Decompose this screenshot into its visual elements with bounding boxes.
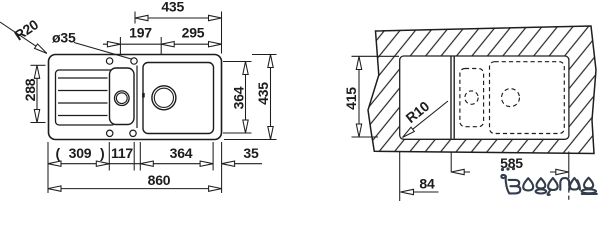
dim 435 right ext bbox=[221, 12, 223, 54]
dim 288 top ext bbox=[31, 64, 46, 66]
ext line through watermark bbox=[568, 174, 570, 201]
arrow 585 right bbox=[556, 169, 569, 174]
arrow 84 bbox=[401, 189, 414, 194]
dim 585 stub left bbox=[451, 171, 470, 173]
watermark letter a tail bbox=[577, 180, 580, 189]
divider line between bowls bbox=[136, 66, 138, 129]
watermark letter p bbox=[560, 178, 569, 190]
dim 84 line bbox=[401, 191, 439, 193]
bottom ext sink left bbox=[47, 142, 49, 193]
dim 435 v bottom ext bbox=[224, 139, 277, 141]
bottom ext 364 left bbox=[139, 142, 141, 171]
dim 435 top line bbox=[135, 17, 222, 19]
arrow 197 left outside bbox=[107, 42, 120, 47]
svg-text:288: 288 bbox=[22, 78, 38, 101]
dim 415 bottom ext bbox=[352, 136, 379, 138]
arrow 288 top bbox=[34, 65, 39, 78]
svg-text:R20: R20 bbox=[11, 16, 41, 44]
arrow R20 leader bbox=[35, 44, 49, 56]
drainer inner rect bbox=[56, 70, 116, 125]
main bowl bbox=[143, 63, 214, 134]
faucet hole top left bbox=[106, 58, 112, 64]
bottom ext 309/117 bbox=[108, 142, 110, 171]
svg-text:117: 117 bbox=[111, 145, 133, 161]
double line a bbox=[450, 57, 452, 139]
watermark letter B stem bbox=[506, 176, 510, 193]
worktop slab with hatching bbox=[368, 26, 596, 154]
watermark letter a drop bbox=[570, 178, 579, 190]
arrow 435v top bbox=[268, 55, 273, 68]
watermark letter B bowls bbox=[509, 180, 521, 194]
drainer rib 1 bbox=[58, 77, 108, 79]
dim 415 line bbox=[358, 57, 360, 138]
cutout opening bbox=[400, 56, 569, 139]
dim 860 line bbox=[48, 188, 222, 190]
bottom ext sink right bbox=[221, 142, 223, 193]
watermark letter d1 drop bbox=[537, 178, 546, 188]
svg-text:364: 364 bbox=[231, 86, 247, 109]
faucet hole top right bbox=[131, 58, 137, 64]
hidden half bowl bbox=[460, 69, 484, 127]
dim 435 v top ext bbox=[252, 54, 277, 56]
arrow 415 top bbox=[356, 57, 361, 70]
watermark letter o2 tail bbox=[548, 189, 551, 195]
main bowl drain inner bbox=[154, 88, 173, 107]
sink outer outline bbox=[49, 55, 222, 140]
svg-text:84: 84 bbox=[419, 176, 435, 192]
svg-text:(: ( bbox=[56, 145, 61, 161]
svg-text:435: 435 bbox=[161, 0, 184, 15]
dim 415 top ext bbox=[352, 55, 400, 57]
overflow tick on main bowl left wall bbox=[142, 93, 145, 98]
arrow 197 right outside bbox=[161, 42, 174, 47]
arrow 364v bottom bbox=[243, 120, 248, 133]
arrow R10 bbox=[401, 127, 415, 139]
arrow 309 right bbox=[96, 161, 109, 166]
dim 435 left ext bbox=[134, 12, 136, 24]
hidden main bowl drain bbox=[502, 89, 520, 107]
arrow 364v top bbox=[243, 62, 248, 75]
dim 364 top ext bbox=[223, 61, 252, 63]
watermark letter o2 drop bbox=[548, 178, 558, 190]
watermark letter d2 boat bbox=[582, 189, 596, 193]
watermark letter d2 drop bbox=[584, 178, 593, 189]
svg-text:364: 364 bbox=[170, 145, 193, 161]
arrow 585 left bbox=[451, 169, 464, 174]
watermark letter d2 baseline bbox=[582, 193, 597, 195]
double line left of bowls bbox=[451, 57, 454, 139]
half bowl drain outer bbox=[115, 91, 130, 106]
dim 435 vertical line bbox=[270, 55, 272, 140]
half bowl bbox=[110, 68, 135, 125]
arrow 288 bottom bbox=[34, 110, 39, 123]
svg-text:295: 295 bbox=[182, 25, 205, 41]
bottom ext 117 right bbox=[133, 142, 135, 171]
dim 197-295 line bbox=[103, 43, 222, 45]
svg-text:197: 197 bbox=[129, 25, 152, 41]
right view dimensions bbox=[352, 56, 569, 201]
arrows left view bbox=[34, 15, 273, 191]
svg-text:): ) bbox=[100, 145, 104, 161]
diameter 35 leader bbox=[74, 43, 132, 60]
dim 585 ext left bbox=[450, 152, 452, 173]
svg-text:35: 35 bbox=[243, 145, 259, 161]
main bowl drain outer bbox=[152, 86, 176, 110]
R20 leader bbox=[0, 22, 47, 53]
faucet hole bottom right bbox=[130, 130, 136, 136]
R10 leader bbox=[403, 101, 449, 137]
faucet hole bottom left bbox=[107, 130, 113, 136]
arrow 435 top right bbox=[209, 15, 222, 20]
svg-text:435: 435 bbox=[255, 82, 271, 105]
half bowl drain inner bbox=[116, 93, 127, 104]
watermark letter o1 drop bbox=[523, 178, 533, 190]
dim 585 stub right bbox=[550, 171, 569, 173]
bottom dim 35 leader bbox=[222, 163, 262, 165]
arrow 435v bottom bbox=[268, 127, 273, 140]
arrow 415 bottom bbox=[356, 124, 361, 137]
arrow 309 left bbox=[48, 161, 61, 166]
arrow 435 top left bbox=[135, 15, 148, 20]
arrow 295 right bbox=[209, 42, 222, 47]
watermark dots bbox=[501, 168, 504, 171]
hidden main bowl bbox=[490, 62, 565, 134]
arrow 35 outside bbox=[222, 161, 235, 166]
ext at 161 bbox=[160, 37, 162, 55]
hidden half bowl drain bbox=[465, 91, 478, 104]
dim 288 line bbox=[36, 65, 38, 122]
texts left view bbox=[11, 0, 271, 188]
double line b bbox=[453, 57, 455, 139]
dim 84 ext bbox=[399, 152, 401, 202]
svg-text:ø35: ø35 bbox=[52, 30, 76, 46]
drainer rib 3 bbox=[58, 102, 108, 104]
watermark letter d1 boat bbox=[536, 189, 547, 193]
dim 364 bottom ext bbox=[223, 132, 252, 134]
ext at 120 bbox=[119, 37, 121, 54]
drainer rib 4 bbox=[58, 115, 108, 117]
drainer rib 2 bbox=[58, 90, 108, 92]
bottom dim row1 line left bbox=[48, 163, 213, 165]
svg-text:415: 415 bbox=[343, 87, 359, 110]
dim 364 vertical line bbox=[245, 62, 247, 134]
arrow 364b right bbox=[200, 161, 213, 166]
bottom ext 364 right bbox=[212, 142, 214, 171]
arrow 860 right bbox=[209, 186, 222, 191]
arrow 860 left bbox=[48, 186, 61, 191]
svg-text:860: 860 bbox=[148, 172, 171, 188]
dim 288 bottom ext bbox=[31, 122, 46, 124]
watermark letter B curl bbox=[501, 175, 506, 178]
svg-text:309: 309 bbox=[69, 145, 92, 161]
arrow 364b left bbox=[140, 161, 153, 166]
dim 585 ext right bbox=[568, 152, 570, 175]
